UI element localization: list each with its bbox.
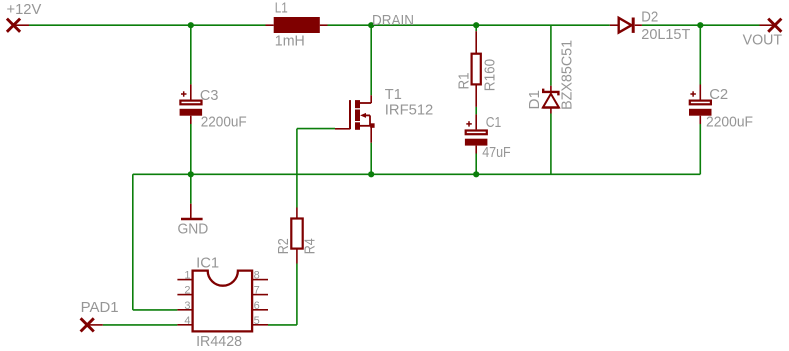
svg-text:4: 4 [184,315,190,327]
svg-text:R160: R160 [481,59,498,91]
svg-text:T1: T1 [385,86,402,103]
svg-text:D1: D1 [526,90,543,110]
svg-text:D2: D2 [641,8,658,25]
svg-text:+12V: +12V [7,1,42,18]
svg-text:IRF512: IRF512 [385,101,434,118]
svg-text:20L15T: 20L15T [641,26,690,43]
svg-text:R4: R4 [301,238,318,254]
svg-text:2: 2 [184,285,190,297]
svg-text:GND: GND [178,220,209,237]
svg-text:BZX85C51: BZX85C51 [558,40,575,110]
svg-text:VOUT: VOUT [743,31,783,48]
svg-text:3: 3 [184,300,190,312]
svg-text:C3: C3 [200,87,219,104]
svg-text:2200uF: 2200uF [706,113,753,130]
svg-text:R1: R1 [456,73,473,90]
svg-text:PAD1: PAD1 [81,299,119,316]
svg-text:2200uF: 2200uF [201,114,247,131]
svg-text:7: 7 [254,285,260,297]
svg-text:C1: C1 [486,114,502,131]
svg-text:8: 8 [254,270,260,282]
svg-text:6: 6 [254,300,260,312]
svg-text:1mH: 1mH [275,33,305,50]
svg-text:47uF: 47uF [482,144,511,161]
svg-text:IC1: IC1 [196,254,219,271]
svg-text:IR4428: IR4428 [196,333,242,350]
svg-text:1: 1 [184,270,190,282]
svg-text:DRAIN: DRAIN [372,12,414,29]
svg-text:C2: C2 [709,86,728,103]
svg-text:5: 5 [254,315,260,327]
svg-text:L1: L1 [275,0,288,16]
svg-text:R2: R2 [275,238,292,254]
